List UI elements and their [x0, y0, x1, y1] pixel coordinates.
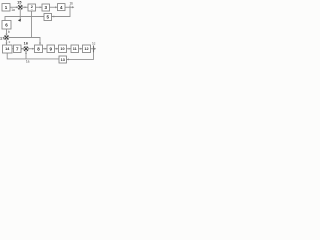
- svg-text:13: 13: [61, 58, 65, 62]
- svg-text:15: 15: [17, 1, 22, 5]
- svg-text:1a: 1a: [26, 60, 30, 64]
- svg-text:~: ~: [31, 8, 33, 12]
- svg-text:17: 17: [0, 36, 5, 40]
- svg-text:1a: 1a: [11, 8, 15, 12]
- svg-text:16: 16: [24, 41, 29, 45]
- svg-text:b: b: [8, 30, 10, 34]
- svg-text:1c: 1c: [92, 41, 96, 45]
- svg-text:11: 11: [73, 47, 77, 51]
- svg-text:10: 10: [60, 47, 64, 51]
- svg-text:12: 12: [84, 47, 88, 51]
- svg-text:1b: 1b: [70, 1, 74, 5]
